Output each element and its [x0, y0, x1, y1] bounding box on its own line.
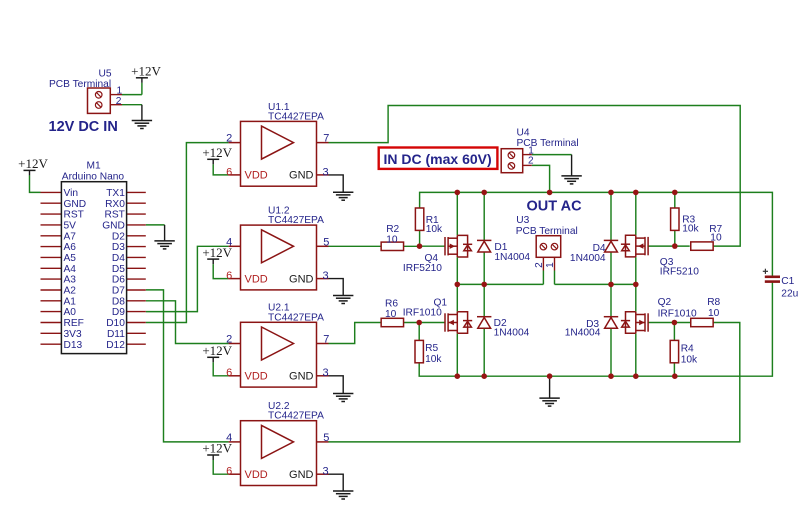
svg-text:PCB Terminal: PCB Terminal: [516, 226, 578, 237]
svg-text:R2: R2: [386, 224, 399, 235]
svg-text:PCB Terminal: PCB Terminal: [49, 79, 111, 90]
svg-text:TC4427EPA: TC4427EPA: [268, 312, 324, 323]
svg-text:3: 3: [323, 270, 329, 282]
svg-text:4: 4: [226, 236, 232, 248]
svg-text:R8: R8: [707, 297, 720, 308]
svg-text:U3: U3: [516, 215, 529, 226]
svg-text:Vin: Vin: [64, 188, 79, 199]
svg-text:IRF1010: IRF1010: [658, 308, 697, 319]
svg-text:1: 1: [545, 262, 556, 268]
svg-text:A0: A0: [64, 307, 77, 318]
svg-text:1N4004: 1N4004: [565, 328, 601, 339]
svg-text:A5: A5: [64, 253, 77, 264]
svg-text:22u: 22u: [781, 288, 798, 299]
svg-text:2: 2: [116, 96, 122, 107]
svg-text:A6: A6: [64, 242, 77, 253]
svg-text:RX0: RX0: [105, 199, 125, 210]
svg-text:D8: D8: [112, 296, 125, 307]
svg-text:REF: REF: [64, 318, 84, 329]
svg-text:5V: 5V: [64, 221, 77, 232]
svg-text:1N4004: 1N4004: [570, 253, 606, 264]
svg-text:10: 10: [708, 308, 720, 319]
svg-text:2: 2: [534, 262, 545, 268]
svg-text:R4: R4: [681, 343, 694, 354]
svg-text:5: 5: [323, 236, 329, 248]
svg-text:D4: D4: [112, 253, 125, 264]
svg-text:U4: U4: [517, 128, 530, 139]
svg-text:Q2: Q2: [658, 297, 672, 308]
svg-text:TC4427EPA: TC4427EPA: [268, 215, 324, 226]
svg-text:3: 3: [323, 166, 329, 178]
svg-text:10k: 10k: [682, 224, 699, 235]
svg-text:IRF1010: IRF1010: [403, 308, 442, 319]
svg-text:RST: RST: [64, 210, 84, 221]
svg-text:TC4427EPA: TC4427EPA: [268, 411, 324, 422]
svg-text:Arduino Nano: Arduino Nano: [62, 172, 125, 183]
svg-text:A3: A3: [64, 275, 77, 286]
svg-text:10k: 10k: [681, 355, 698, 366]
svg-text:D10: D10: [106, 318, 125, 329]
svg-text:7: 7: [323, 133, 329, 145]
svg-text:7: 7: [323, 334, 329, 346]
svg-text:IRF5210: IRF5210: [660, 267, 699, 278]
svg-text:6: 6: [226, 270, 232, 282]
svg-text:IN DC (max 60V): IN DC (max 60V): [384, 151, 492, 167]
svg-text:D9: D9: [112, 307, 125, 318]
svg-text:TC4427EPA: TC4427EPA: [268, 111, 324, 122]
svg-text:D6: D6: [112, 275, 125, 286]
svg-text:M1: M1: [87, 160, 101, 171]
svg-text:3V3: 3V3: [64, 329, 82, 340]
svg-text:5: 5: [323, 432, 329, 444]
svg-text:RST: RST: [105, 210, 125, 221]
svg-text:10k: 10k: [425, 354, 442, 365]
svg-text:2: 2: [528, 156, 534, 167]
svg-text:1: 1: [117, 86, 123, 97]
svg-text:GND: GND: [64, 199, 87, 210]
svg-text:10: 10: [710, 233, 722, 244]
svg-text:GND: GND: [102, 221, 125, 232]
svg-text:10: 10: [386, 234, 398, 245]
svg-text:D5: D5: [112, 264, 125, 275]
svg-text:TX1: TX1: [106, 188, 125, 199]
svg-text:A7: A7: [64, 231, 77, 242]
svg-text:+12V: +12V: [131, 63, 161, 78]
svg-text:D13: D13: [64, 340, 83, 351]
svg-text:3: 3: [323, 367, 329, 379]
svg-text:12V DC IN: 12V DC IN: [49, 119, 118, 135]
svg-text:1N4004: 1N4004: [494, 252, 530, 263]
svg-text:10: 10: [385, 309, 397, 320]
svg-text:D11: D11: [107, 329, 125, 340]
svg-text:2: 2: [226, 133, 232, 145]
svg-text:2: 2: [226, 334, 232, 346]
svg-text:A2: A2: [64, 286, 77, 297]
svg-text:A1: A1: [64, 296, 77, 307]
svg-text:3: 3: [323, 466, 329, 478]
svg-text:D2: D2: [112, 231, 125, 242]
svg-text:+12V: +12V: [18, 156, 48, 171]
svg-text:D7: D7: [112, 286, 125, 297]
svg-text:D3: D3: [112, 242, 125, 253]
svg-text:4: 4: [226, 432, 232, 444]
svg-text:R5: R5: [425, 343, 438, 354]
svg-text:R6: R6: [385, 299, 398, 310]
svg-text:6: 6: [226, 166, 232, 178]
svg-text:IRF5210: IRF5210: [403, 263, 442, 274]
svg-text:+12V: +12V: [202, 145, 232, 160]
svg-text:OUT AC: OUT AC: [527, 199, 583, 215]
svg-text:6: 6: [226, 367, 232, 379]
svg-text:1N4004: 1N4004: [494, 328, 530, 339]
svg-text:10k: 10k: [426, 224, 443, 235]
svg-text:C1: C1: [781, 276, 794, 287]
svg-text:6: 6: [226, 466, 232, 478]
svg-text:D12: D12: [106, 340, 125, 351]
svg-text:A4: A4: [64, 264, 77, 275]
svg-text:PCB Terminal: PCB Terminal: [517, 138, 579, 149]
